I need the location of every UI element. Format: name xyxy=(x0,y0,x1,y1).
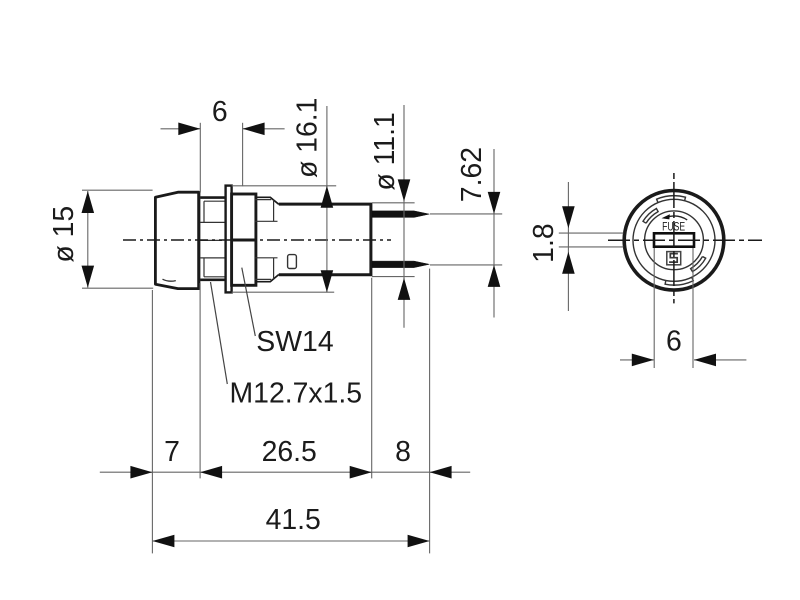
svg-text:8: 8 xyxy=(395,436,411,468)
dimension 1.8 xyxy=(528,182,624,311)
leader M12.7x1.5 xyxy=(211,282,363,410)
inner circle xyxy=(645,211,704,270)
dimension row 7 / 26.5 / 8 xyxy=(100,436,470,478)
slot guide lines below xyxy=(654,247,693,368)
front view horizontal centerline xyxy=(608,239,762,241)
knob cap outline xyxy=(155,192,198,288)
rotation arrow xyxy=(662,214,688,220)
svg-text:6: 6 xyxy=(212,96,228,128)
svg-text:41.5: 41.5 xyxy=(266,504,321,536)
main body cylinder xyxy=(279,204,371,275)
svg-text:M12.7x1.5: M12.7x1.5 xyxy=(230,378,363,410)
dimension 41.5 xyxy=(152,504,429,548)
terminal pin lower xyxy=(372,261,429,268)
outer rim circle xyxy=(624,191,724,291)
svg-text:7: 7 xyxy=(164,436,180,468)
screwdriver slot xyxy=(654,233,694,246)
leader SW14 xyxy=(242,268,334,358)
FUSE label xyxy=(662,219,685,233)
centerline (side view axis) xyxy=(123,239,391,241)
bottom extension lines xyxy=(152,269,429,554)
front view vertical centerline xyxy=(673,173,675,303)
svg-text:26.5: 26.5 xyxy=(262,436,317,468)
flange washer xyxy=(226,186,232,293)
rear thread section xyxy=(255,197,279,281)
bayonet arc top xyxy=(657,196,686,203)
bayonet arc lower-right xyxy=(691,257,706,272)
body detail slot xyxy=(288,255,297,269)
svg-text:ø 16.1: ø 16.1 xyxy=(292,98,324,179)
bayonet arc bottom xyxy=(665,277,693,285)
svg-text:6: 6 xyxy=(666,326,682,358)
dimension phi16.1 xyxy=(232,98,337,293)
cap bottom notch detail xyxy=(163,279,176,281)
hex nut SW14 xyxy=(232,194,256,285)
dimension phi11.1 xyxy=(369,105,415,328)
front thread section between cap and flange xyxy=(200,198,225,280)
bayonet arc upper-left xyxy=(643,209,658,224)
dimension phi15 xyxy=(48,190,153,288)
svg-text:1.8: 1.8 xyxy=(528,223,560,262)
maker logo square xyxy=(667,252,681,265)
svg-text:7.62: 7.62 xyxy=(456,147,488,202)
svg-text:ø 11.1: ø 11.1 xyxy=(369,112,401,190)
svg-text:SW14: SW14 xyxy=(256,326,333,358)
dimension 6 (front) xyxy=(620,326,746,367)
svg-text:ø 15: ø 15 xyxy=(48,206,80,263)
terminal pin upper xyxy=(372,211,429,218)
middle circle xyxy=(633,199,715,281)
dimension 6 (top) xyxy=(161,96,285,193)
dimension 7.62 xyxy=(430,147,502,318)
